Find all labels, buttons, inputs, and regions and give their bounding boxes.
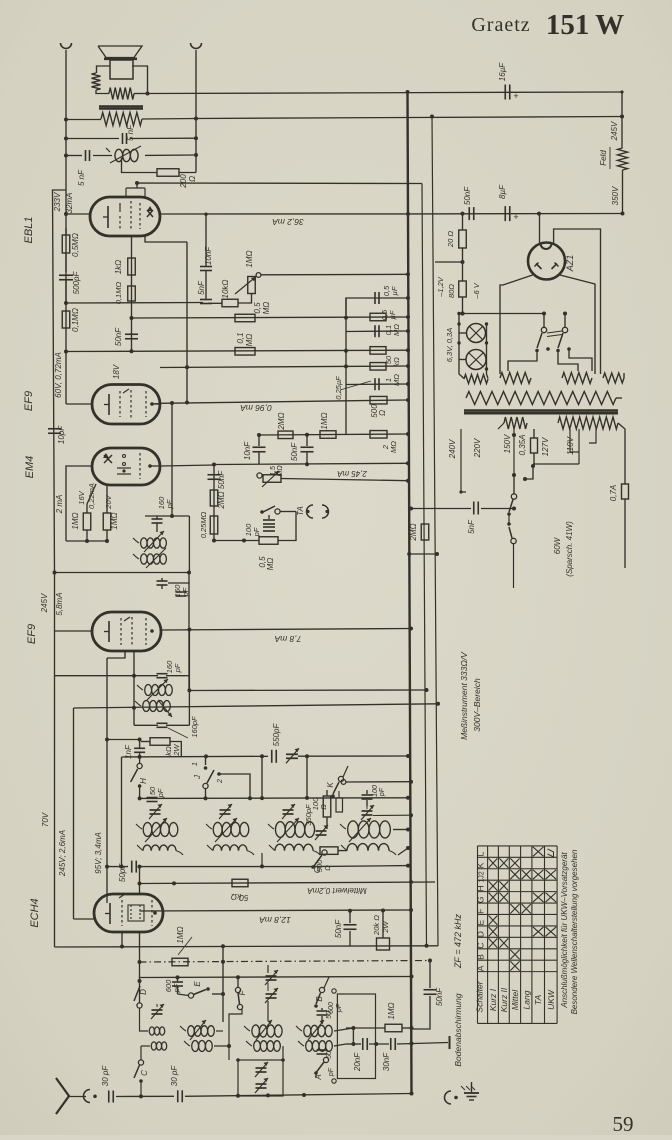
svg-text:Feld: Feld bbox=[599, 150, 608, 166]
wire ant row bbox=[116, 1094, 174, 1098]
wire row400 bbox=[160, 398, 410, 403]
trimmer stage2 bbox=[219, 804, 232, 819]
coil RF1 secondary bbox=[137, 845, 183, 855]
svg-text:60W: 60W bbox=[553, 536, 562, 554]
label 1kOhm bbox=[114, 260, 123, 275]
capacitor 100pF k bbox=[362, 790, 373, 806]
label 20V bbox=[104, 494, 113, 509]
potentiometer 1MOhm bbox=[235, 273, 261, 294]
switch H bbox=[131, 757, 143, 788]
label 2MOhm x214 bbox=[217, 491, 226, 509]
resistor 0,5MOhm row317 bbox=[235, 314, 255, 322]
capacitor 30pF ant bbox=[109, 1091, 114, 1103]
svg-text:200: 200 bbox=[179, 174, 188, 189]
wire padder row bbox=[373, 813, 413, 817]
svg-text:100: 100 bbox=[372, 785, 379, 797]
wire 200ohm branch bbox=[122, 158, 158, 173]
wire row946 bbox=[55, 944, 439, 948]
resistor 1MOhm ech bbox=[172, 937, 192, 966]
label 0,25MOhm bbox=[199, 511, 208, 538]
svg-text:EF9: EF9 bbox=[23, 391, 35, 411]
wire pot to rail bbox=[261, 272, 410, 276]
tube EF9 audio bbox=[92, 385, 160, 425]
wire row756 bbox=[122, 754, 269, 759]
trimmer 350pF bbox=[315, 825, 328, 840]
label 10k 2W bbox=[164, 743, 181, 756]
label 127V bbox=[541, 437, 550, 456]
capacitor 5nF top bbox=[123, 133, 127, 144]
wire F branch bbox=[229, 1009, 242, 1046]
label 50kOhm ech bbox=[231, 892, 249, 902]
lamp 1 bbox=[467, 324, 486, 343]
label 1MOhm pot bbox=[245, 250, 254, 267]
wire secondary left bbox=[64, 118, 101, 122]
wire row675 bbox=[55, 674, 159, 678]
wire row961 dash bbox=[140, 959, 433, 963]
resistor 50kOhm ech bbox=[232, 879, 248, 887]
svg-text:pF: pF bbox=[328, 1067, 335, 1077]
coil RF2 secondary bbox=[207, 845, 254, 855]
node x54-572 bbox=[53, 571, 57, 575]
svg-text:1: 1 bbox=[192, 762, 199, 766]
label 50nF x214 bbox=[217, 470, 226, 489]
svg-text:+: + bbox=[513, 212, 518, 222]
resistor 1kOhm bbox=[128, 258, 136, 275]
label 30pF ant bbox=[101, 1065, 110, 1087]
note Anschluss bbox=[560, 852, 569, 1009]
plus 16uF bbox=[513, 91, 518, 101]
svg-text:µF: µF bbox=[388, 310, 397, 319]
svg-text:MΩ: MΩ bbox=[389, 441, 398, 453]
rail V4 bbox=[422, 184, 427, 947]
label 160pF b bbox=[173, 584, 190, 597]
resistor 2MOhm row434 bbox=[278, 431, 293, 439]
wire row351 bbox=[64, 348, 410, 353]
capacitor 160pF d bbox=[157, 723, 168, 727]
svg-text:2 mА: 2 mА bbox=[55, 495, 64, 515]
label 95V 3,4mA bbox=[94, 832, 103, 874]
wire x107 drop bbox=[106, 658, 108, 903]
label 100pF k bbox=[372, 785, 386, 797]
svg-text:pF: pF bbox=[379, 787, 386, 797]
label 2MOhm row434 bbox=[277, 412, 286, 430]
wire IF1 right edge bbox=[188, 516, 190, 573]
switch F bbox=[235, 977, 242, 1010]
svg-text:MΩ: MΩ bbox=[266, 558, 275, 571]
wire x140 ech bbox=[138, 867, 142, 1003]
wire EF9b pin mid bbox=[133, 652, 135, 676]
svg-text:245V: 245V bbox=[40, 593, 49, 613]
capacitor 50pF e bbox=[132, 861, 137, 873]
switch J bbox=[203, 756, 250, 798]
wire EBL1 anode bbox=[160, 212, 410, 216]
svg-text:50pF: 50pF bbox=[118, 863, 127, 882]
svg-text:EM4: EM4 bbox=[24, 456, 36, 479]
svg-text:MΩ: MΩ bbox=[392, 324, 401, 336]
box 160pF top bbox=[168, 571, 191, 584]
label 1MOhm ech bbox=[176, 926, 185, 943]
svg-text:150V: 150V bbox=[503, 434, 512, 453]
capacitor 30pF b bbox=[178, 1090, 183, 1102]
label 8uF bbox=[498, 184, 507, 199]
label row331 bbox=[380, 309, 397, 320]
wire row464 bbox=[212, 461, 410, 466]
svg-text:1J2: 1J2 bbox=[479, 871, 486, 882]
trimmer 550pF bbox=[286, 748, 299, 763]
speaker LS bbox=[98, 46, 142, 79]
label 5,8mA bbox=[55, 592, 64, 615]
coil G1 bbox=[296, 1020, 332, 1040]
node E-line bbox=[212, 944, 225, 1022]
label 100 Ohm bbox=[311, 797, 328, 810]
capacitor 550pF fixed bbox=[272, 750, 277, 763]
wire x206 bbox=[204, 213, 207, 300]
wire row883 bbox=[140, 880, 436, 885]
label 50nF avc bbox=[290, 442, 299, 461]
note Besondere bbox=[570, 849, 579, 1014]
svg-text:UKW: UKW bbox=[546, 989, 556, 1010]
wire row1043 bbox=[346, 1042, 448, 1047]
wire lamp top bbox=[457, 322, 466, 359]
capacitor 10pF bbox=[48, 429, 61, 434]
label 1MOhm zf bbox=[387, 1002, 396, 1019]
label 1MOhm row434 bbox=[320, 412, 329, 429]
label 1MOhm em4b bbox=[110, 512, 119, 529]
table letters bbox=[475, 851, 486, 1012]
wire ECH4 left bbox=[74, 918, 95, 920]
svg-text:µF: µF bbox=[390, 286, 399, 295]
switch E bbox=[178, 987, 210, 998]
svg-text:2MΩ: 2MΩ bbox=[409, 523, 418, 541]
svg-text:0,96 mА: 0,96 mА bbox=[240, 403, 272, 413]
svg-text:50nF: 50nF bbox=[334, 919, 343, 938]
winding heater 3 bbox=[603, 373, 624, 383]
svg-text:350V: 350V bbox=[611, 186, 620, 205]
svg-text:8µF: 8µF bbox=[498, 184, 507, 199]
wire EM4 left bbox=[66, 466, 92, 541]
switch C bbox=[134, 1060, 144, 1097]
trimmer stage3 bbox=[282, 804, 295, 819]
winding heater 2 bbox=[562, 373, 592, 384]
coil RF3 secondary bbox=[269, 844, 320, 855]
capacitor 5nF ladder bbox=[200, 300, 212, 304]
trimmer box2 bbox=[255, 1078, 268, 1093]
resistor 1MOhm em4a bbox=[83, 513, 91, 530]
coil tone inductor bbox=[106, 146, 141, 163]
label 16V bbox=[77, 490, 86, 504]
capacitor 600pF bbox=[172, 978, 183, 995]
pin 600pF bbox=[328, 989, 343, 1014]
label 0,5MOhm row317 bbox=[253, 302, 271, 315]
svg-text:(Sparsch. 41W): (Sparsch. 41W) bbox=[565, 521, 574, 577]
svg-text:5,8mА: 5,8mА bbox=[55, 592, 64, 615]
svg-text:30 pF: 30 pF bbox=[170, 1065, 179, 1087]
svg-text:C: C bbox=[476, 942, 486, 948]
wire EM4 right stub bbox=[160, 465, 214, 466]
svg-text:0,7А: 0,7А bbox=[609, 485, 618, 501]
frame line left bbox=[53, 190, 67, 573]
rail B+ main bbox=[408, 92, 412, 1094]
label 16uF bbox=[498, 62, 507, 82]
wire row675 right bbox=[166, 675, 189, 677]
label 50nF x131 bbox=[114, 327, 123, 346]
wire coil row left bbox=[64, 154, 82, 158]
label 5nF top bbox=[126, 124, 135, 141]
svg-text:50nF: 50nF bbox=[290, 442, 299, 461]
tube EF9 IF bbox=[92, 612, 161, 651]
svg-text:32mA: 32mA bbox=[65, 193, 74, 214]
coil G2 bbox=[298, 1041, 332, 1052]
wire IF1 top row bbox=[145, 515, 189, 517]
connector TA arcs bbox=[306, 505, 328, 518]
node EBL1 grid bbox=[64, 212, 68, 216]
svg-text:G: G bbox=[476, 897, 486, 904]
svg-text:20V: 20V bbox=[104, 494, 113, 509]
coil ant D bbox=[140, 1022, 165, 1035]
label 2MOhm row434b bbox=[381, 441, 398, 453]
wire EBL1 grid bbox=[66, 213, 90, 215]
svg-text:pF: pF bbox=[336, 1003, 343, 1013]
label TA bbox=[296, 506, 305, 516]
svg-text:36,2 mA: 36,2 mA bbox=[272, 217, 304, 227]
wire 200ohm to V2 bbox=[179, 172, 196, 174]
trimmer F2 bbox=[265, 988, 278, 1003]
capacitor 500pF bbox=[59, 275, 73, 303]
pin 50pF bbox=[328, 1067, 336, 1083]
wire heater rail right bbox=[196, 117, 622, 119]
label 0,7A bbox=[609, 485, 618, 501]
label Sparsch bbox=[565, 521, 574, 577]
svg-text:2MΩ: 2MΩ bbox=[217, 491, 226, 509]
wire heater3 up bbox=[623, 373, 625, 378]
svg-text:E: E bbox=[476, 920, 486, 926]
label 32mA bbox=[65, 193, 74, 214]
wire V2 top bbox=[195, 50, 197, 173]
svg-text:0,1: 0,1 bbox=[236, 332, 245, 343]
label A bbox=[314, 1074, 323, 1080]
tube AZ1 bbox=[528, 243, 565, 280]
svg-text:0,35А: 0,35А bbox=[518, 435, 527, 456]
wire row782 TA bbox=[341, 780, 413, 785]
label 30nF bbox=[382, 1052, 391, 1071]
label 50pF e bbox=[118, 863, 127, 882]
label 0,96mA bbox=[240, 403, 272, 413]
label 1MOhm em4a bbox=[71, 512, 80, 529]
label EBL1 bbox=[23, 217, 35, 244]
svg-text:pF: pF bbox=[165, 499, 174, 509]
capacitor 5nF left bbox=[86, 150, 90, 161]
svg-text:127V: 127V bbox=[541, 437, 550, 456]
wire 5nF left bbox=[64, 137, 119, 141]
wire EF9b anode bbox=[160, 627, 413, 631]
wire ant row2 bbox=[185, 1092, 414, 1098]
label 20 Ohm bbox=[446, 231, 455, 248]
svg-text:50nF: 50nF bbox=[217, 470, 226, 489]
label 60W bbox=[553, 536, 562, 554]
svg-text:160pF: 160pF bbox=[190, 716, 199, 738]
wire mains switch rail bbox=[459, 312, 567, 316]
label 20nF bbox=[353, 1052, 362, 1072]
node V1-303 bbox=[64, 301, 68, 305]
svg-text:0,1MΩ: 0,1MΩ bbox=[114, 282, 123, 305]
svg-text:70V: 70V bbox=[41, 812, 50, 827]
resistor 2MOhm row434b bbox=[370, 431, 387, 439]
tube EBL1 bbox=[90, 197, 160, 236]
resistor 0,25MOhm bbox=[210, 516, 218, 534]
svg-text:B: B bbox=[476, 954, 486, 960]
label J bbox=[192, 762, 224, 784]
wire speaker left lead bbox=[97, 66, 111, 73]
switch B bbox=[314, 977, 329, 1008]
wire coil4 to rail bbox=[393, 828, 410, 856]
capacitor 160pF b bbox=[157, 578, 168, 589]
coil RF1 primary bbox=[136, 818, 178, 842]
coil RF4 secondary bbox=[341, 844, 396, 855]
antenna bbox=[56, 1078, 97, 1114]
capacitor 0,5uF bbox=[375, 292, 379, 304]
svg-text:18V: 18V bbox=[112, 364, 121, 379]
label K bbox=[326, 782, 335, 788]
label F bbox=[238, 989, 247, 995]
wire lamp right bbox=[485, 322, 488, 378]
wire coil row right bbox=[145, 153, 198, 157]
label 10nF coupling bbox=[204, 246, 213, 265]
label 6,3V 0,3A bbox=[445, 328, 454, 362]
label 0,5MOhm bot bbox=[258, 556, 275, 570]
svg-text:ZF = 472 kHz: ZF = 472 kHz bbox=[453, 913, 463, 969]
svg-text:Meßinstrument 333Ω/V: Meßinstrument 333Ω/V bbox=[459, 651, 469, 740]
label 0,1MOhm row351 bbox=[236, 332, 254, 346]
label 100pF bbox=[244, 523, 261, 537]
svg-text:Mittel: Mittel bbox=[510, 989, 520, 1010]
capacitor 160pF a bbox=[152, 516, 163, 532]
resistor 0,1MOhm V1 bbox=[62, 311, 70, 328]
table row names bbox=[488, 987, 556, 1012]
potentiometer 1,5MOhm bbox=[257, 471, 281, 487]
label 5nF ladder bbox=[197, 280, 206, 295]
wire x172 drop bbox=[170, 401, 174, 518]
coil IF1 primary bbox=[133, 531, 166, 552]
resistor 2MOhm x214 bbox=[210, 490, 218, 506]
svg-text:2W: 2W bbox=[381, 920, 390, 933]
wire row866 bbox=[105, 864, 410, 869]
winding secondary a bbox=[498, 417, 527, 429]
label 245V 2,6mA bbox=[58, 830, 67, 877]
svg-text:220V: 220V bbox=[473, 438, 482, 458]
capacitor 50pF h bbox=[147, 798, 158, 802]
label 0,1 row317 bbox=[384, 324, 401, 336]
label 36,2mA bbox=[272, 217, 304, 227]
wire row434 bbox=[257, 432, 410, 437]
ground symbol bbox=[461, 1082, 479, 1100]
coil osc a bbox=[137, 679, 172, 700]
wire F trimmers bbox=[267, 965, 269, 1021]
wire pot right bbox=[281, 479, 410, 483]
svg-text:Schalter: Schalter bbox=[475, 980, 485, 1012]
resistor 10k 2W bbox=[141, 738, 181, 757]
coil RF2 primary bbox=[206, 818, 249, 842]
wire row798 bbox=[140, 796, 410, 800]
wire lamps column bbox=[457, 312, 464, 379]
svg-text:0,5MΩ: 0,5MΩ bbox=[71, 233, 80, 257]
svg-text:C: C bbox=[140, 1070, 149, 1076]
svg-text:H: H bbox=[139, 778, 148, 784]
label 0,1MOhm V1 bbox=[71, 308, 80, 332]
svg-text:500pF: 500pF bbox=[72, 271, 81, 295]
transformer core bbox=[464, 411, 618, 414]
label 220V bbox=[473, 438, 482, 458]
svg-text:Ω: Ω bbox=[378, 410, 387, 416]
wire switch drops bbox=[508, 349, 592, 371]
label 7,8mA bbox=[274, 634, 301, 644]
svg-text:1MΩ: 1MΩ bbox=[245, 250, 254, 267]
wire em4 bottom bbox=[66, 530, 109, 543]
resistor 0,1 row317 bbox=[370, 313, 386, 321]
wire row384 bbox=[346, 382, 410, 386]
svg-text:H: H bbox=[476, 885, 486, 891]
wire x187 drop bbox=[145, 236, 189, 405]
label 245V b bbox=[40, 593, 49, 613]
lamp 2 bbox=[466, 350, 486, 370]
wire row303 left bbox=[66, 302, 203, 305]
svg-text:60V, 0,72mA: 60V, 0,72mA bbox=[54, 352, 63, 398]
svg-text:50: 50 bbox=[326, 1051, 333, 1059]
label 0,5MOhm bbox=[71, 233, 80, 257]
svg-text:EBL1: EBL1 bbox=[23, 217, 35, 244]
capacitor 50nF zf bbox=[412, 961, 437, 1030]
resistor speaker zigzag vertical bbox=[92, 73, 101, 90]
switch K bbox=[331, 766, 348, 798]
wire x262-307 drop bbox=[262, 756, 307, 798]
label D bbox=[139, 989, 148, 995]
resistor 1MOhm row434 bbox=[320, 431, 336, 439]
wire x139 mid bbox=[138, 786, 142, 800]
wire EF9a grid bbox=[66, 352, 92, 405]
EF9b internals bbox=[104, 617, 154, 645]
label EM4 bbox=[24, 456, 36, 479]
label 60V 0,72mA bbox=[54, 352, 63, 398]
svg-text:300V–Bereich: 300V–Bereich bbox=[472, 678, 482, 732]
transformer core bars bbox=[99, 106, 143, 108]
svg-text:2,45 mА: 2,45 mА bbox=[337, 469, 368, 478]
svg-text:Anschlußmöglichkeit für UKW–Vo: Anschlußmöglichkeit für UKW–Vorsatzgerät bbox=[560, 852, 569, 1009]
svg-text:0,22mА: 0,22mА bbox=[87, 483, 96, 509]
wire x346 ladder bbox=[345, 298, 347, 435]
title 151 W bbox=[546, 9, 624, 41]
wire x121 drop bbox=[120, 757, 124, 869]
svg-text:550pF: 550pF bbox=[272, 723, 281, 747]
wire x73 drop bbox=[73, 708, 75, 919]
vertical x131 bbox=[131, 237, 133, 351]
wire box2 bbox=[188, 583, 190, 691]
title Graetz bbox=[471, 14, 530, 36]
wire x622 drop bbox=[620, 90, 624, 148]
switch link dashes bbox=[547, 331, 562, 337]
label 160pF d bbox=[168, 716, 199, 738]
svg-text:EF9: EF9 bbox=[26, 624, 38, 644]
svg-text:151 W: 151 W bbox=[546, 9, 624, 41]
svg-text:Graetz: Graetz bbox=[471, 14, 530, 36]
coil osc b bbox=[135, 700, 172, 717]
label 0,22mA bbox=[87, 483, 96, 509]
svg-text:7,8 mА: 7,8 mА bbox=[274, 634, 301, 644]
svg-text:240V: 240V bbox=[448, 439, 457, 459]
node rail dots bbox=[406, 90, 435, 119]
label 2mA bbox=[55, 495, 64, 515]
svg-text:F: F bbox=[476, 909, 486, 914]
svg-text:K: K bbox=[326, 782, 335, 788]
winding secondary b bbox=[558, 417, 618, 429]
